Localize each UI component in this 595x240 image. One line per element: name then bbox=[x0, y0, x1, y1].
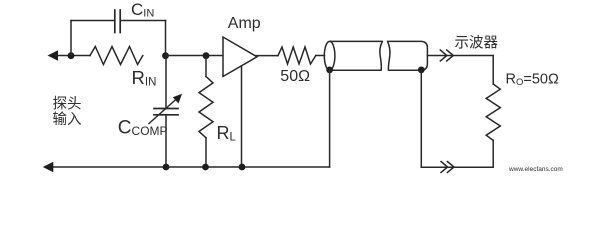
wire scope right down bbox=[492, 56, 494, 85]
svg-text:RO=50Ω: RO=50Ω bbox=[506, 72, 559, 89]
node C_COMP bottom bbox=[163, 164, 170, 171]
wire R_L top lead bbox=[205, 56, 207, 77]
node amp ground bottom bbox=[239, 164, 246, 171]
wire R_L bottom lead bbox=[205, 138, 207, 167]
svg-text:50Ω: 50Ω bbox=[280, 68, 310, 85]
connector chevrons top bbox=[440, 50, 453, 61]
svg-text:探头: 探头 bbox=[53, 96, 82, 113]
resistor R_IN bbox=[90, 47, 143, 65]
resistor R_L bbox=[199, 77, 213, 138]
node coax shield left bbox=[326, 67, 333, 74]
wire bottom right return bbox=[421, 166, 493, 168]
connector chevrons bottom bbox=[441, 162, 454, 173]
node R_L bottom bbox=[202, 164, 209, 171]
svg-text:Amp: Amp bbox=[228, 15, 261, 32]
wire coax shield right down bbox=[420, 70, 422, 167]
node coax shield right bbox=[418, 67, 425, 74]
svg-text:示波器: 示波器 bbox=[455, 35, 499, 52]
wire top branch right of C_IN bbox=[121, 20, 166, 22]
wire vertical left cap branch bbox=[70, 21, 72, 56]
wire C_COMP bottom lead bbox=[165, 115, 167, 167]
arrow (probe input, bottom-left) bbox=[43, 162, 54, 173]
coax cable section 1 bbox=[324, 41, 382, 70]
node junction at x=206 top bbox=[203, 52, 210, 59]
coax cable section 2 bbox=[388, 41, 428, 70]
wire amp output bbox=[256, 55, 278, 57]
wire coax to scope corner bbox=[427, 55, 493, 57]
capacitor C_IN bbox=[115, 10, 120, 33]
capacitor C_COMP (variable) bbox=[149, 94, 182, 124]
node junction at x=165.5 top bbox=[162, 52, 169, 59]
svg-text:输入: 输入 bbox=[53, 111, 82, 128]
op-amp U1 Amp bbox=[223, 37, 257, 77]
wire R_O bottom lead bbox=[492, 140, 494, 167]
wire amp ground lead bbox=[241, 66, 243, 167]
wire C_COMP top lead bbox=[165, 56, 167, 109]
resistor R_O bbox=[486, 84, 500, 140]
node junction at x=71 top bbox=[68, 52, 75, 59]
wire resistor to coax bbox=[316, 55, 325, 57]
arrow (probe input, top-left) bbox=[48, 50, 59, 61]
resistor 50ohm bbox=[278, 47, 316, 64]
wire vertical right cap branch bbox=[165, 21, 167, 56]
wire main to amp input bbox=[166, 55, 224, 57]
wire coax shield left down bbox=[329, 70, 331, 167]
wire top branch left of C_IN bbox=[71, 20, 114, 22]
wire bottom rail bbox=[52, 166, 330, 168]
svg-text:www.elecfans.com: www.elecfans.com bbox=[508, 166, 563, 173]
wire arrow to R_IN left bbox=[56, 55, 90, 57]
